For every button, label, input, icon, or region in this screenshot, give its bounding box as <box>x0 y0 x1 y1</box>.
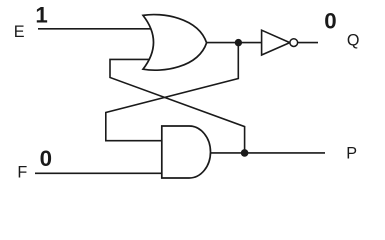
inverter bubble <box>290 39 298 47</box>
svg-text:E: E <box>14 23 25 41</box>
svg-text:Q: Q <box>347 32 360 50</box>
svg-text:0: 0 <box>40 146 52 171</box>
junction node after AND gate <box>241 149 249 157</box>
wire OR output to inverter <box>207 42 262 44</box>
wire feedback OR-output to AND-input <box>106 43 239 141</box>
wire AND output to P <box>209 152 325 154</box>
junction node after OR gate <box>235 39 242 46</box>
inverter U2 <box>262 30 290 55</box>
svg-text:0: 0 <box>324 9 336 34</box>
svg-text:P: P <box>346 145 357 163</box>
wire E input <box>38 28 155 30</box>
wire feedback AND-output to OR-input <box>110 59 245 152</box>
or-gate U1 <box>143 15 207 71</box>
and-gate U3 <box>162 126 211 178</box>
svg-text:F: F <box>17 163 27 181</box>
wire F input <box>35 172 162 174</box>
wire inverter output <box>298 42 318 44</box>
svg-text:1: 1 <box>35 2 47 27</box>
